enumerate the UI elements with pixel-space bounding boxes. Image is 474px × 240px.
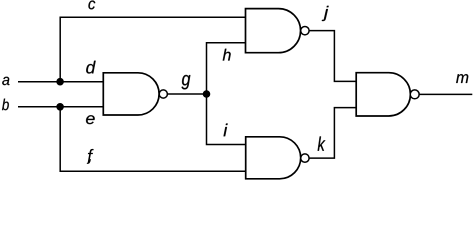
wire h net: [207, 43, 246, 94]
label c: [88, 1, 95, 10]
label k: [318, 136, 326, 150]
wire m output: [419, 93, 472, 95]
label f descender tail: [87, 160, 90, 164]
label d: [86, 61, 95, 74]
label g: [182, 75, 191, 89]
wire j net: [309, 31, 356, 82]
label m: [456, 74, 468, 83]
label h: [223, 49, 231, 61]
label a: [2, 77, 9, 85]
wire i net: [207, 94, 246, 145]
label i: [224, 124, 228, 137]
label b: [2, 99, 9, 111]
nand gate U2: [246, 9, 301, 53]
junction dot node a: [56, 78, 64, 86]
nand gate U1: [103, 73, 159, 115]
junction dot node g: [203, 90, 211, 98]
wire g output of U1: [167, 93, 206, 95]
bubble U3: [301, 154, 309, 162]
junction dot node b: [56, 103, 64, 111]
bubble U2: [301, 26, 309, 34]
bubble U4: [410, 90, 419, 99]
bubble U1: [159, 90, 167, 98]
nand gate U4: [356, 73, 410, 116]
label e: [86, 115, 95, 124]
wire k net: [309, 108, 356, 159]
wire b input: [18, 106, 103, 108]
wire a input: [18, 81, 103, 83]
wire f net: [60, 107, 246, 171]
label f: [88, 149, 94, 164]
nand gate U3: [246, 137, 301, 179]
label j: [322, 6, 329, 21]
wire c net: [60, 17, 245, 82]
